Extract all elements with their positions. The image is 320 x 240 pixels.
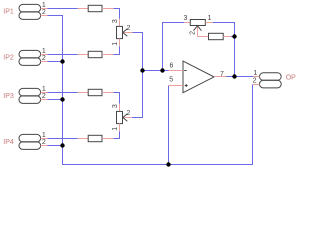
wire IP1 pin2 to ground bus, bus down, bottom rail, up to OP pin2 — [48, 16, 253, 165]
svg-text:1: 1 — [42, 132, 46, 139]
wire IP4 pin1 to R4 — [48, 138, 78, 140]
svg-text:6: 6 — [170, 63, 174, 70]
junction dot summing left — [140, 68, 144, 72]
resistor R5 (feedback) — [209, 33, 224, 39]
svg-text:2: 2 — [127, 25, 131, 32]
junction dot output — [232, 74, 236, 78]
wire IP4 pin2 to bus — [48, 145, 63, 147]
pin lead IP1-2 — [41, 15, 48, 17]
svg-text:1: 1 — [42, 86, 46, 93]
potentiometer RV3 (feedback, horizontal) — [184, 22, 190, 24]
pin lead IP3-1 — [41, 92, 48, 94]
svg-text:2: 2 — [253, 78, 257, 85]
connector J2 IP2 — [19, 50, 41, 65]
resistor R1 — [78, 8, 88, 10]
connector J1 IP1 — [19, 4, 41, 19]
svg-text:3: 3 — [184, 15, 188, 22]
junction dot summing right — [160, 68, 164, 72]
connector J5 OP — [260, 73, 282, 88]
potentiometer RV2 — [119, 104, 121, 112]
connector J4 IP4 — [19, 134, 41, 149]
potentiometer RV1 — [119, 19, 121, 27]
connector J3 IP3 — [19, 88, 41, 103]
wire summing node horizontal — [143, 70, 169, 72]
wire summing node up to RV3 pin3 — [163, 23, 185, 71]
plus symbol — [185, 85, 188, 87]
wire RV2 wiper to summing node — [132, 71, 143, 118]
svg-text:5: 5 — [169, 77, 173, 84]
junction dot bus-IP4 — [60, 143, 64, 147]
svg-text:3: 3 — [112, 104, 119, 108]
svg-text:1: 1 — [112, 127, 119, 131]
wire RV1 wiper to summing node — [133, 33, 143, 71]
wire RV3 pin1 down to feedback node — [213, 23, 235, 37]
svg-text:IP1: IP1 — [3, 9, 14, 16]
svg-text:OP: OP — [286, 75, 296, 82]
svg-text:2: 2 — [42, 55, 46, 62]
resistor R3 — [78, 92, 88, 94]
svg-text:1: 1 — [42, 2, 46, 9]
svg-text:2: 2 — [189, 31, 196, 35]
wire IP2 pin2 to bus — [48, 61, 63, 63]
wire R1 to RV1 pin3 — [113, 9, 119, 19]
svg-text:1: 1 — [208, 15, 212, 22]
wire IP1 pin1 to R1 — [48, 8, 78, 10]
wire IP3 pin1 to R3 — [48, 92, 78, 94]
svg-text:1: 1 — [112, 42, 119, 46]
pin lead U1-5 — [169, 85, 184, 87]
resistor R2 — [78, 54, 88, 56]
wire opamp pin5 down to bottom rail — [168, 86, 170, 165]
svg-text:IP4: IP4 — [3, 139, 14, 146]
junction dot bottom rail — [166, 162, 170, 166]
junction dot bus-IP3 — [60, 97, 64, 101]
pin lead IP1-1 — [41, 8, 48, 10]
svg-text:2: 2 — [42, 9, 46, 16]
wire IP2 pin1 to R2 — [48, 54, 78, 56]
op-amp U1 — [183, 61, 214, 93]
wire output node to OP pin1 — [226, 76, 253, 78]
wire IP3 pin2 to bus — [48, 99, 63, 101]
svg-text:2: 2 — [42, 139, 46, 146]
svg-text:1: 1 — [42, 48, 46, 55]
svg-text:2: 2 — [42, 93, 46, 100]
junction dot feedback — [232, 34, 236, 38]
svg-text:IP3: IP3 — [3, 93, 14, 100]
resistor R4 — [78, 138, 88, 140]
pin lead IP2-2 — [41, 61, 48, 63]
pin lead IP4-2 — [41, 145, 48, 147]
svg-text:2: 2 — [127, 110, 131, 117]
minus symbol — [184, 70, 186, 72]
svg-text:7: 7 — [220, 71, 224, 78]
pin lead IP2-1 — [41, 54, 48, 56]
junction dot bus-IP2 — [60, 59, 64, 63]
wire R4 to RV2 pin1 — [113, 131, 119, 138]
svg-text:1: 1 — [253, 70, 257, 77]
svg-text:3: 3 — [112, 19, 119, 23]
wire R2 to RV1 pin1 — [113, 46, 119, 54]
pin lead IP3-2 — [41, 99, 48, 101]
pin lead IP4-1 — [41, 138, 48, 140]
pin lead OP-2 — [253, 84, 260, 86]
pin lead U1-7 — [214, 76, 226, 78]
pin lead OP-1 — [253, 76, 260, 78]
wire feedback node down to output node — [234, 37, 236, 77]
wire R3 to RV2 pin3 — [113, 93, 119, 104]
svg-text:IP2: IP2 — [3, 55, 14, 62]
pin lead U1-6 — [169, 70, 184, 72]
